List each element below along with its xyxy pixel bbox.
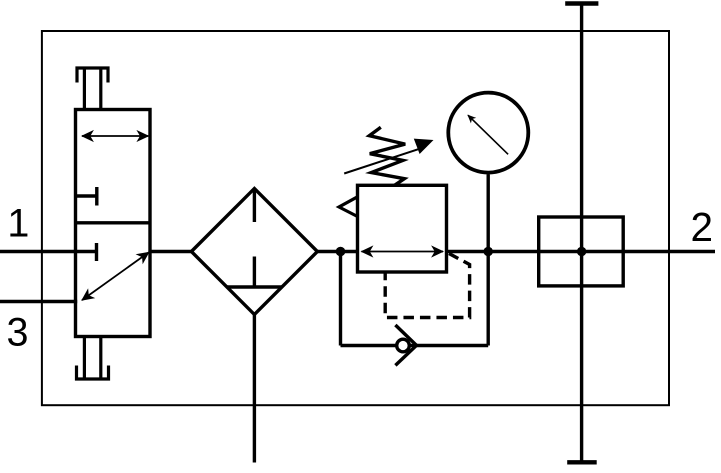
wire filter F1 to regulator R1 [317, 250, 358, 253]
gauge needle [468, 115, 508, 154]
wire port 1 to valve V1 [0, 250, 76, 253]
relief valve ball [397, 339, 410, 352]
wire regulator R1 to port 2 [446, 250, 715, 253]
port label 1 [7, 201, 29, 245]
shutoff valve body [539, 217, 624, 286]
shutoff top T terminal [565, 1, 598, 5]
pressure gauge G1 [448, 93, 528, 173]
valve V1 bottom manual actuator [77, 337, 109, 380]
valve V1 bottom position flow path arrow 3-2 [82, 252, 149, 300]
wire relief branch bottom [341, 344, 489, 347]
wire valve V1 to filter F1 [149, 250, 193, 253]
filter F1 body (diamond) [191, 189, 317, 315]
valve V1 top manual actuator [77, 68, 108, 110]
svg-text:1: 1 [7, 201, 29, 245]
valve V1 body (3/2 way valve) [76, 110, 151, 337]
node at gauge branch [484, 247, 493, 256]
wire filter F1 drain [253, 315, 256, 463]
regulator R1 pilot line (dashed) [385, 254, 469, 318]
regulator R1 spring [369, 127, 405, 185]
valve V1 top position blocked port [76, 187, 97, 206]
filter F1 condensate chord [227, 285, 282, 288]
svg-text:3: 3 [7, 310, 29, 354]
valve V1 top position flow arrow [82, 135, 148, 137]
port label 3 [7, 310, 29, 354]
filter F1 element line [253, 190, 256, 287]
svg-text:2: 2 [691, 204, 714, 250]
wire port 3 to valve V1 [0, 300, 77, 303]
shutoff bottom T terminal [567, 460, 597, 464]
relief valve seat [395, 325, 416, 365]
regulator R1 vent triangle [339, 197, 358, 217]
regulator R1 adjustment arrow [344, 139, 433, 174]
wire shutoff valve vertical [580, 3, 583, 463]
regulator R1 flow arrow [362, 251, 444, 253]
valve V1 bottom position blocked port 1 [76, 243, 97, 261]
node at shutoff valve center [577, 247, 586, 256]
wire gauge stem and relief branch right [487, 174, 490, 345]
node at regulator inlet [336, 247, 346, 257]
enclosure border (service unit frame) [42, 31, 669, 405]
wire relief branch left [339, 252, 342, 346]
regulator R1 body [358, 185, 447, 272]
port label 2 [691, 204, 714, 250]
